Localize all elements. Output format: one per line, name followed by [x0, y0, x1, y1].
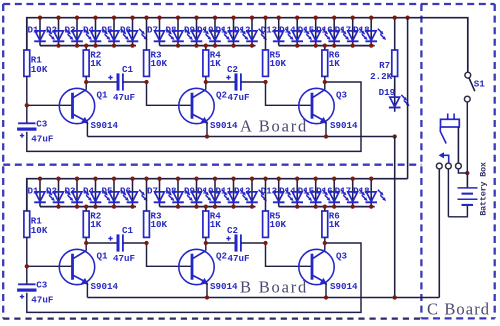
svg-text:D15: D15 [298, 185, 315, 196]
svg-text:S9014: S9014 [91, 120, 119, 131]
LED D13 [261, 179, 294, 207]
LED D12 [234, 179, 267, 207]
svg-text:Q3: Q3 [336, 89, 348, 100]
svg-text:D6: D6 [120, 185, 131, 196]
wire: +V top bus (B board) [27, 179, 408, 211]
wire: R1 stub (B) [26, 179, 28, 211]
LED D8 [165, 18, 192, 46]
wire: R6 stub to LED bus (B) [324, 207, 326, 211]
svg-text:D13: D13 [261, 185, 278, 196]
resistor R7 2.2K [370, 50, 397, 82]
capacitor C1 47uF [108, 225, 135, 264]
wire: +V drop from A top bus to B top bus [407, 18, 409, 179]
capacitor C3 47uF [17, 279, 53, 305]
resistor R2 1K [83, 49, 101, 76]
capacitor C2 47uF [226, 225, 249, 264]
LED D4 [83, 179, 110, 207]
svg-text:C2: C2 [227, 225, 238, 236]
LED D9 [184, 18, 211, 46]
wire: R5 node down to Q3 base (A) [266, 82, 313, 105]
resistor R3 10K [144, 49, 168, 76]
LED D15 [298, 18, 331, 46]
resistor R6 1K [322, 210, 340, 237]
wire: Q3 emitter drop (A) [325, 122, 327, 137]
svg-text:A Board: A Board [240, 116, 308, 135]
wire: collector Q2 to C2 (B) [206, 242, 235, 244]
resistor R1 10K [24, 50, 48, 76]
wire: terminal 2 to battery negative [447, 169, 449, 217]
wire: R4 stub to LED bus (B) [205, 207, 207, 211]
wire: LED group 3 cathode bus (A board) [279, 45, 375, 47]
wire: Q3 collector to R6 (B) [324, 237, 326, 250]
wire: R3 node down to Q2 base (B) [147, 243, 193, 266]
svg-text:D3: D3 [64, 185, 76, 196]
B board bottom dashed border [3, 317, 421, 319]
svg-text:D9: D9 [184, 185, 195, 196]
svg-text:D13: D13 [261, 24, 278, 35]
wire: R7 to D19 [394, 76, 396, 96]
capacitor C1 47uF [108, 64, 135, 103]
junction dot at Q1 base node (A) [25, 103, 29, 107]
LED D7 [147, 18, 174, 46]
svg-text:1K: 1K [210, 219, 222, 230]
svg-text:2.2K: 2.2K [370, 71, 393, 82]
wire: battery negative return [448, 206, 467, 217]
svg-text:D5: D5 [101, 24, 113, 35]
svg-text:1K: 1K [90, 219, 102, 230]
LED D10 [197, 179, 230, 207]
battery box terminal 1 [436, 163, 442, 169]
LED D18 [353, 179, 386, 207]
junction dots at collector nodes (B) [84, 241, 327, 245]
LED D17 [335, 179, 368, 207]
switch S1 [464, 72, 485, 102]
wire: R1 stub (A) [26, 18, 28, 50]
wire: Q1 emitter drop (B) [86, 283, 88, 298]
wire: C1 to R3 node (B) [123, 242, 147, 244]
wire: Q3 collector feedback loop (A) [27, 82, 361, 151]
svg-text:D19: D19 [379, 87, 396, 98]
svg-text:C1: C1 [122, 225, 134, 236]
LED D5 [101, 18, 128, 46]
svg-text:10K: 10K [31, 64, 48, 75]
wire: LED group 2 cathode bus (B board) [160, 206, 256, 208]
power jack J1 [439, 114, 460, 164]
wire: Q2 emitter drop (B) [206, 283, 208, 298]
wire: Q1 collector to R2 (A) [85, 76, 87, 89]
svg-text:S9014: S9014 [330, 120, 358, 131]
svg-text:D15: D15 [298, 24, 315, 35]
svg-text:D6: D6 [120, 24, 131, 35]
svg-text:10K: 10K [270, 219, 287, 230]
LED D16 [316, 179, 349, 207]
battery box terminal 2 [446, 163, 452, 169]
svg-text:D3: D3 [64, 24, 76, 35]
resistor R2 1K [83, 210, 101, 237]
svg-text:D11: D11 [215, 24, 232, 35]
wire: Q3 collector feedback loop (B) [27, 243, 361, 312]
svg-text:C3: C3 [36, 279, 48, 290]
svg-text:S9014: S9014 [210, 281, 238, 292]
svg-text:47uF: 47uF [228, 92, 250, 103]
svg-text:D11: D11 [215, 185, 232, 196]
wire: R2 stub to LED bus (B) [85, 207, 87, 211]
svg-text:47uF: 47uF [31, 133, 53, 144]
svg-text:D8: D8 [165, 185, 177, 196]
wire: R5 node down to Q3 base (B) [266, 243, 313, 266]
LED D2 [46, 179, 73, 207]
svg-text:S1: S1 [474, 78, 486, 89]
svg-text:D7: D7 [147, 24, 158, 35]
svg-text:D10: D10 [197, 24, 214, 35]
svg-text:Q1: Q1 [97, 250, 109, 261]
wire: emitter ground bus (B) [87, 297, 439, 299]
wire: R5 stub from top bus (B) [265, 179, 267, 211]
junction dots on top bus (B) [38, 177, 374, 181]
LED D4 [83, 18, 110, 46]
svg-text:D16: D16 [316, 24, 333, 35]
resistor R5 10K [263, 210, 287, 237]
wire: R7 stub from top bus [394, 18, 396, 50]
battery box terminal 3 [456, 163, 462, 169]
svg-text:B Board: B Board [240, 277, 308, 296]
wire: R4 stub to LED bus (A) [205, 46, 207, 50]
wire: B emitter bus to battery box terminal 1 [438, 169, 440, 298]
svg-text:D12: D12 [234, 185, 251, 196]
transistor Q2 S9014 [179, 249, 238, 292]
LED D1 [27, 18, 54, 46]
svg-text:10K: 10K [270, 58, 287, 69]
wire: LED group 2 cathode bus (A board) [160, 45, 256, 47]
junction dots on emitter bus (B) [205, 295, 397, 299]
svg-text:Battery Box: Battery Box [479, 162, 489, 216]
wire: Q1 base line (A) [27, 104, 73, 106]
wire: R2 stub to LED bus (A) [85, 46, 87, 50]
LED D9 [184, 179, 211, 207]
svg-text:C2: C2 [227, 64, 238, 75]
LED D5 [101, 179, 128, 207]
svg-text:Q1: Q1 [97, 89, 109, 100]
wire: ground drop from A emitter bus to B emitter bus [394, 137, 396, 298]
LED D13 [261, 18, 294, 46]
svg-text:Q3: Q3 [336, 250, 348, 261]
LED D8 [165, 179, 192, 207]
LED D11 [215, 18, 248, 46]
LED D10 [197, 18, 230, 46]
LED D12 [234, 18, 267, 46]
wire: C1 to R3 node (A) [123, 81, 147, 83]
wire: R1 to Q1 base node and C3 (B) [26, 237, 28, 284]
svg-text:47uF: 47uF [113, 92, 135, 103]
resistor R5 10K [263, 49, 287, 76]
svg-text:D9: D9 [184, 24, 195, 35]
wire: S1 to battery positive node [466, 102, 468, 173]
svg-text:D17: D17 [335, 24, 352, 35]
LED D6 [120, 18, 147, 46]
svg-text:C1: C1 [122, 64, 134, 75]
svg-text:10K: 10K [31, 225, 48, 236]
svg-text:D2: D2 [46, 185, 57, 196]
junction dot at Q1 base node (B) [25, 264, 29, 268]
wire: LED group 1 cathode bus (B board) [40, 206, 136, 208]
svg-text:1K: 1K [329, 58, 341, 69]
junction dots at collector nodes (A) [84, 80, 327, 84]
wire: R3 stub from top bus (A) [146, 18, 148, 50]
svg-text:Q2: Q2 [216, 89, 227, 100]
svg-text:D1: D1 [27, 24, 39, 35]
wire: terminal 3 to positive node [458, 169, 467, 173]
junction dot ground drop joins B emitter bus [393, 295, 397, 299]
LED D3 [64, 18, 91, 46]
wire: Q2 collector to R4 (A) [205, 76, 207, 89]
wire: +V top bus (A board) [27, 18, 468, 73]
svg-text:D8: D8 [165, 24, 177, 35]
wire: R3 node down to Q2 base (A) [147, 82, 193, 105]
junction dots on LED cathode buses (A) [56, 43, 373, 47]
LED D15 [298, 179, 331, 207]
svg-text:D7: D7 [147, 185, 158, 196]
svg-text:D10: D10 [197, 185, 214, 196]
svg-text:C Board: C Board [427, 300, 490, 319]
resistor R6 1K [322, 49, 340, 76]
svg-text:D4: D4 [83, 24, 95, 35]
wire: Q3 collector to R6 (A) [324, 76, 326, 89]
wire: collector Q1 to C1 (A) [86, 81, 116, 83]
wire: R5 stub from top bus (A) [265, 18, 267, 50]
junction dots on top bus (A) [38, 16, 410, 20]
wire: R1 to Q1 base node and C3 (A) [26, 76, 28, 123]
wire: Q1 collector to R2 (B) [85, 237, 87, 250]
LED D18 [353, 18, 386, 46]
resistor R4 1K [203, 210, 221, 237]
svg-text:D12: D12 [234, 24, 251, 35]
svg-text:R7: R7 [379, 60, 390, 71]
transistor Q1 S9014 [59, 249, 118, 292]
resistor R1 10K [24, 211, 48, 237]
C board bottom dashed border [421, 317, 494, 319]
junction dot battery positive node [465, 171, 469, 175]
svg-text:1K: 1K [90, 58, 102, 69]
junction dots on emitter bus (A) [205, 134, 397, 138]
svg-text:10K: 10K [151, 58, 168, 69]
svg-text:1K: 1K [329, 219, 341, 230]
svg-text:S9014: S9014 [91, 281, 119, 292]
LED D11 [215, 179, 248, 207]
wire: LED group 1 cathode bus (A board) [40, 45, 136, 47]
svg-text:D1: D1 [27, 185, 39, 196]
svg-text:D18: D18 [353, 24, 370, 35]
svg-text:D2: D2 [46, 24, 57, 35]
LED D1 [27, 179, 54, 207]
LED D16 [316, 18, 349, 46]
svg-text:D4: D4 [83, 185, 95, 196]
svg-text:D14: D14 [279, 24, 296, 35]
svg-text:D16: D16 [316, 185, 333, 196]
wire: C2 to R5 node (B) [241, 242, 266, 244]
svg-text:Q2: Q2 [216, 250, 227, 261]
transistor Q2 S9014 [179, 88, 238, 131]
svg-text:S9014: S9014 [330, 281, 358, 292]
wire: Q1 emitter drop (A) [86, 122, 88, 137]
svg-text:D17: D17 [335, 185, 352, 196]
wire: Q2 emitter drop (A) [206, 122, 208, 137]
wire: Q2 collector to R4 (B) [205, 237, 207, 250]
LED D7 [147, 179, 174, 207]
capacitor C2 47uF [226, 64, 249, 103]
svg-text:1K: 1K [210, 58, 222, 69]
wire: Q3 emitter drop (B) [325, 283, 327, 298]
LED D14 [279, 179, 312, 207]
wire: Q1 base line (B) [27, 265, 73, 267]
wire: LED group 3 cathode bus (B board) [279, 206, 375, 208]
battery BT1 [458, 173, 478, 206]
svg-text:47uF: 47uF [113, 253, 135, 264]
LED D2 [46, 18, 73, 46]
svg-text:D5: D5 [101, 185, 113, 196]
wire: collector Q2 to C2 (A) [206, 81, 235, 83]
wire: collector Q1 to C1 (B) [86, 242, 116, 244]
svg-text:S9014: S9014 [210, 120, 238, 131]
svg-text:D14: D14 [279, 185, 296, 196]
LED D3 [64, 179, 91, 207]
transistor Q1 S9014 [59, 88, 118, 131]
wire: R3 stub from top bus (B) [146, 179, 148, 211]
wire: emitter ground bus (A) [87, 136, 394, 138]
LED D6 [120, 179, 147, 207]
capacitor C3 47uF [17, 118, 53, 144]
svg-text:D18: D18 [353, 185, 370, 196]
junction dots on LED cathode buses (B) [56, 204, 373, 208]
resistor R3 10K [144, 210, 168, 237]
wire: C2 to R5 node (A) [241, 81, 266, 83]
svg-text:C3: C3 [36, 118, 48, 129]
svg-text:47uF: 47uF [31, 294, 53, 305]
svg-text:47uF: 47uF [228, 253, 250, 264]
LED D19 [389, 84, 410, 112]
svg-text:10K: 10K [151, 219, 168, 230]
wire: R6 stub to LED bus (A) [324, 46, 326, 50]
transistor Q3 S9014 [299, 249, 358, 292]
LED D17 [335, 18, 368, 46]
LED D14 [279, 18, 312, 46]
resistor R4 1K [203, 49, 221, 76]
transistor Q3 S9014 [299, 88, 358, 131]
